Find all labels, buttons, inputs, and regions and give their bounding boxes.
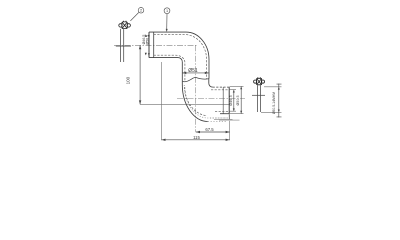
balloon 2 bbox=[138, 8, 144, 14]
elbow U2 outer bottom dotted bbox=[208, 118, 229, 122]
svg-text:Ø46.5: Ø46.5 bbox=[229, 95, 233, 106]
clamp C2 left head bbox=[119, 21, 131, 29]
elbow U2 bore top dashed bbox=[211, 89, 229, 91]
weld wavy joint bbox=[182, 77, 209, 81]
extension lines outlet dims bbox=[230, 86, 244, 113]
elbow U1 top edge bbox=[149, 31, 186, 33]
clamp C2 right head bbox=[254, 77, 265, 85]
elbow U2 bottom edge2 light bbox=[214, 118, 233, 120]
elbow U2 bottom edge bbox=[220, 113, 229, 115]
clamp C2 right centerline cross bbox=[252, 94, 265, 96]
dim inlet arrows bbox=[145, 34, 150, 56]
dim phi51 line bbox=[182, 72, 209, 74]
elbow U1 bottom edge bbox=[149, 57, 178, 59]
centerline outlet horizontal bbox=[177, 97, 245, 99]
elbow U1 bore bottom dashed bbox=[154, 55, 185, 80]
elbow U1 ferrule ring bbox=[153, 32, 155, 58]
elbow U1 outer right edge bbox=[208, 60, 210, 79]
elbow U2 inner right edge bbox=[208, 79, 210, 84]
elbow U2 outer left edge bbox=[181, 81, 183, 84]
wire extension line 67.5/115 left bbox=[161, 62, 163, 140]
extension lines right height dim bbox=[261, 87, 282, 113]
svg-text:67.5: 67.5 bbox=[205, 127, 214, 132]
dim outlet phi46 line bbox=[233, 90, 235, 112]
dim 67.5 arrows bbox=[196, 131, 230, 133]
elbow U2 outlet face bbox=[228, 87, 230, 114]
dim 115 line bbox=[162, 139, 230, 141]
elbow U1 bore top dashed bbox=[154, 35, 207, 79]
dim outlet phi50.5 arrows bbox=[240, 86, 242, 113]
elbow U2 outer arc bbox=[182, 85, 208, 122]
elbow U2 bore bottom dashed bbox=[215, 110, 229, 112]
wire extension line 100-dim bottom bbox=[140, 103, 229, 105]
svg-text:Ø50.5: Ø50.5 bbox=[236, 95, 240, 105]
elbow U1 outer arc bbox=[186, 32, 209, 59]
dim 67.5 line bbox=[196, 131, 230, 133]
elbow U2 ferrule ring bbox=[222, 87, 224, 114]
elbow U1 inlet face bbox=[148, 32, 150, 58]
svg-text:Ø50.5-14MHM: Ø50.5-14MHM bbox=[272, 92, 276, 114]
elbow U1 inner left edge bbox=[181, 62, 183, 81]
dim 100 arrows bbox=[139, 45, 141, 104]
dim right height end ticks bbox=[277, 84, 282, 117]
svg-text:100: 100 bbox=[126, 76, 131, 84]
svg-text:Ø51: Ø51 bbox=[188, 68, 198, 74]
clamp C2 right stem bbox=[257, 85, 260, 112]
elbow U2 inner corner arc bbox=[209, 83, 213, 87]
dim right height arrows bbox=[278, 87, 280, 113]
balloon 2 leader bbox=[130, 13, 138, 21]
dim outlet phi50.5 line bbox=[240, 86, 242, 113]
svg-text:2: 2 bbox=[140, 9, 142, 13]
dim phi51 arrows bbox=[182, 72, 209, 74]
clamp C2 left stem bbox=[121, 29, 124, 62]
balloon 1 leader arrow bbox=[166, 29, 168, 32]
dim outlet phi46 arrows bbox=[233, 90, 235, 112]
centerline inlet horizontal bbox=[114, 44, 197, 46]
elbow U2 lower band bbox=[219, 119, 240, 121]
elbow U2 top edge dashed bbox=[213, 86, 230, 88]
dim 100 line bbox=[139, 45, 141, 104]
dim right height line bbox=[278, 84, 280, 118]
elbow U2 outlet face lower light bbox=[228, 114, 230, 120]
elbow U2 outer inner dotted arc bbox=[184, 85, 228, 118]
centerline vertical bend bbox=[195, 45, 197, 132]
centerline clamp cross bbox=[116, 45, 131, 47]
elbow U2 bore arc dashed bbox=[185, 87, 207, 116]
dim 115 arrows bbox=[162, 139, 230, 141]
balloon 1 bbox=[164, 8, 170, 14]
balloon 1 leader bbox=[166, 14, 168, 31]
svg-text:115: 115 bbox=[193, 135, 200, 140]
svg-text:1: 1 bbox=[166, 9, 168, 13]
elbow U1 inner corner arc bbox=[178, 58, 182, 62]
wire extension line 67.5/115 right bbox=[229, 115, 231, 141]
